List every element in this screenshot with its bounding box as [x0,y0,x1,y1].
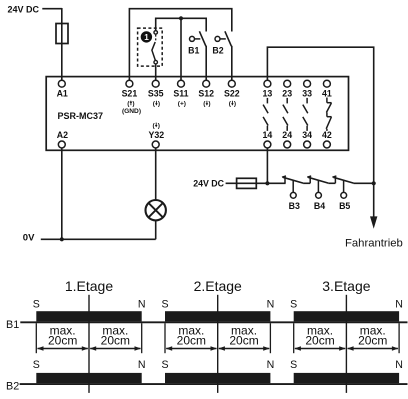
0V rail [41,238,156,240]
floor marker line 1 [88,295,90,393]
svg-text:20cm: 20cm [177,333,206,347]
NO safety contact column x=307.1 [303,98,308,131]
relay block PSR-MC37 [46,77,348,151]
svg-text:B1: B1 [188,46,199,56]
svg-text:): ) [158,122,160,129]
indicator lamp [146,200,166,220]
svg-text:1: 1 [144,33,149,42]
terminal 13 [263,80,273,98]
svg-text:20cm: 20cm [48,333,77,347]
wire fuse F2 to node 14 and B3 [256,182,285,184]
svg-text:B5: B5 [339,201,350,211]
svg-text:S: S [290,298,297,310]
svg-text:20cm: 20cm [358,333,387,347]
dimension arrow 1l [37,346,88,351]
terminal 23 [282,80,292,98]
svg-text:): ) [234,101,236,108]
label max 20cm 3r [358,323,387,347]
svg-text:S35: S35 [148,89,164,99]
svg-text:PSR-MC37: PSR-MC37 [58,111,104,121]
svg-text:3.Etage: 3.Etage [322,278,370,294]
svg-text:S22: S22 [224,89,240,99]
svg-text:34: 34 [302,130,312,140]
switch B3 [282,176,303,198]
svg-text:B2: B2 [212,46,223,56]
pin note (down arrow) for S22 [229,101,236,108]
pin note (down arrow) for Y32 [152,122,159,129]
rail line B1 [20,321,407,323]
svg-text:S12: S12 [198,89,214,99]
switch B5 [332,176,353,198]
label max 20cm 1l [48,323,77,347]
terminal 41 [322,80,332,98]
switch B4 [307,176,328,198]
svg-text:0V: 0V [23,233,35,244]
svg-text:N: N [138,359,146,371]
svg-text:): ) [132,101,134,108]
svg-text:S: S [33,298,40,310]
label max 20cm 1r [101,323,130,347]
svg-text:13: 13 [263,89,273,99]
terminal 34 [302,130,312,148]
terminal S21 [122,80,138,98]
floor marker line 3 [345,295,347,393]
dimension arrow 2l [166,346,217,351]
dimension arrow 2r [218,346,269,351]
terminal A1 [57,80,68,98]
terminal A2 [57,130,68,148]
arrow to Fahrantrieb [370,216,377,228]
magnet bar B2 section 3 [294,373,399,383]
wire fuse F1 vertical feed [61,8,63,80]
NO safety contact column x=267.4 [263,98,268,131]
fuse F2 [237,178,257,188]
svg-text:): ) [208,101,210,108]
terminal 42 [322,130,332,148]
svg-text:B2: B2 [6,381,19,393]
dimension tick right 1 [141,323,143,353]
svg-text:14: 14 [263,130,273,140]
svg-text:(GND): (GND) [122,108,141,115]
magnet bar B2 section 2 [165,373,270,383]
svg-text:N: N [395,298,403,310]
svg-text:(+): (+) [178,101,186,108]
floor marker line 2 [217,295,219,393]
terminal Y32 [148,130,164,148]
wire B2 to S22 [231,46,233,81]
wire 14 riser [266,148,268,183]
NC auxiliary contact 41-42 [326,98,331,131]
node junction S11 rail [179,16,183,20]
svg-text:Fahrantrieb: Fahrantrieb [345,237,403,249]
svg-text:S11: S11 [173,89,188,99]
switch B1 [190,31,206,46]
wire contact 13 to output rail [267,47,373,217]
svg-text:23: 23 [282,89,292,99]
magnetic sensor enclosure (dashed) [138,28,163,66]
svg-text:Y32: Y32 [148,130,164,140]
fuse F1 [56,24,68,44]
label max 20cm 3l [305,323,334,347]
wire B5 to output node [354,182,374,184]
node junction 14 / supply [265,181,269,185]
rail line B2 [20,383,408,385]
svg-text:20cm: 20cm [229,333,258,347]
svg-text:24V DC: 24V DC [8,5,40,15]
switch B2 [215,31,231,46]
svg-text:24V DC: 24V DC [193,178,224,188]
svg-text:20cm: 20cm [101,333,130,347]
terminal S12 [198,80,214,98]
dimension tick left 1 [35,323,37,353]
svg-text:N: N [395,359,403,371]
svg-text:S21: S21 [122,89,138,99]
svg-text:): ) [158,101,160,108]
svg-text:41: 41 [322,89,332,99]
terminal S22 [224,80,240,98]
NO safety contact column x=287.2 [283,98,288,131]
wire 24V DC to fuse F2 [226,182,257,184]
svg-text:S: S [290,359,297,371]
label max 20cm 2r [229,323,258,347]
magnet bar B1 section 3 [294,311,399,321]
svg-text:N: N [267,298,275,310]
terminal S35 [148,80,164,98]
svg-text:B4: B4 [314,201,325,211]
node junction output [372,181,376,185]
pin note (down arrow) for S35 [153,101,160,108]
node junction A2 / 0V [60,237,64,241]
dimension arrow 1r [90,346,141,351]
svg-text:20cm: 20cm [305,333,334,347]
wire B1 to S12 [205,46,207,81]
svg-text:S: S [33,359,40,371]
terminal S11 [173,80,188,98]
wire Y32 to lamp [155,148,157,200]
magnet bar B2 section 1 [36,373,141,383]
svg-text:A2: A2 [57,130,68,140]
svg-text:24: 24 [282,130,292,140]
wire S35 riser to rail to B1 [156,18,207,31]
magnet bar B1 section 1 [36,311,141,321]
svg-text:2.Etage: 2.Etage [194,278,242,294]
svg-text:33: 33 [302,89,312,99]
terminal 33 [302,80,312,98]
terminal 24 [282,130,292,148]
svg-text:1.Etage: 1.Etage [65,278,113,294]
wire A2 to 0V rail [61,148,63,239]
label max 20cm 2l [177,323,206,347]
wire S11 riser [180,18,182,80]
terminal 14 [263,130,273,148]
dimension tick left 3 [293,323,295,353]
marker 1 (black circle) [141,31,152,42]
wire lamp to 0V rail [155,220,157,239]
dimension arrow 3r [347,346,398,351]
wire S21 riser to top rail to B2 [129,9,231,81]
sensor contact (reed) [152,31,158,64]
svg-text:S: S [161,298,168,310]
svg-text:42: 42 [322,130,332,140]
svg-text:B3: B3 [289,201,300,211]
dimension arrow 3l [294,346,345,351]
wire B4 out [328,182,335,184]
svg-text:S: S [161,359,168,371]
dimension tick right 2 [269,323,271,353]
magnet bar B1 section 2 [165,311,270,321]
wire B3 out [303,182,310,184]
wire sensor to S35 [155,64,157,80]
svg-text:N: N [267,359,275,371]
svg-text:B1: B1 [6,319,19,331]
dimension tick left 2 [164,323,166,353]
pin note (down arrow) for S12 [203,101,210,108]
dimension tick right 3 [398,323,400,353]
pin note (up arrow) for S21 [127,100,134,107]
wire 24V DC label to fuse F1 [42,8,62,10]
svg-text:A1: A1 [57,89,68,99]
svg-text:N: N [138,298,146,310]
